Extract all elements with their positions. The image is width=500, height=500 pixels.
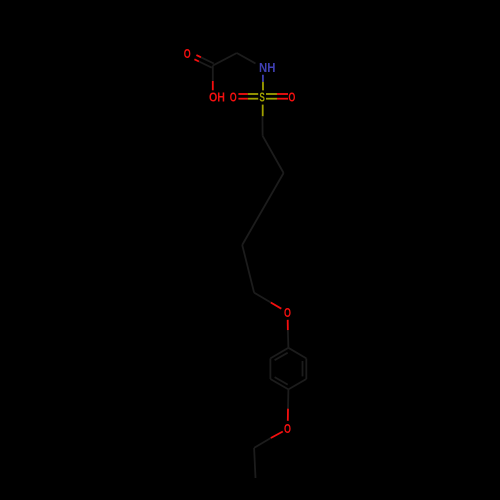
svg-text:O: O bbox=[284, 305, 291, 320]
bond N-S (blue half) bbox=[262, 75, 264, 82]
bond acidC-alphaC (gray) bbox=[213, 53, 237, 66]
ring edge LL-UL (gray) bbox=[269, 358, 271, 379]
ring edge UL-T (gray) bbox=[270, 348, 288, 359]
svg-text:O: O bbox=[284, 421, 291, 436]
bond S=O right line b (red half) bbox=[277, 98, 288, 100]
bond C5-C6 ethyl tail (gray) bbox=[254, 448, 255, 478]
bond C1-C2 (gray) bbox=[263, 136, 284, 173]
bond C3-C4 (gray) bbox=[242, 245, 254, 293]
svg-text:O: O bbox=[184, 46, 191, 61]
ring inner aromatic line bottom-left (gray) bbox=[275, 377, 288, 385]
svg-text:S: S bbox=[259, 89, 265, 104]
bond S=O left line b (olive half) bbox=[248, 98, 259, 100]
ring inner aromatic line right (gray) bbox=[302, 361, 304, 376]
bond C=O carbonyl line b (gray half) bbox=[199, 62, 212, 68]
bond O2-C5 (red half) bbox=[271, 432, 283, 439]
bond C2-C3 long straight (gray) bbox=[242, 173, 283, 245]
ring inner aromatic line top-left (gray) bbox=[275, 353, 288, 361]
bond C-OH (gray half) bbox=[212, 66, 214, 81]
bond S=O right line a (red half) bbox=[277, 93, 288, 95]
bond S=O right line b (olive half) bbox=[266, 98, 277, 100]
svg-text:O: O bbox=[230, 89, 237, 104]
bond S=O right line a (olive half) bbox=[266, 93, 277, 95]
ring edge T-UR (gray) bbox=[288, 348, 306, 359]
bond O2-C5 (gray half) bbox=[254, 438, 271, 448]
bond S=O left line b (red half) bbox=[238, 98, 247, 100]
bond S-C1 (olive half) bbox=[262, 105, 264, 117]
bond N-S (olive half) bbox=[262, 82, 264, 91]
ring edge LR-B (gray) bbox=[288, 379, 306, 389]
bond alphaC-N (gray, trimmed at NH text) bbox=[237, 53, 256, 64]
bond C4-O1 (gray half) bbox=[254, 293, 271, 303]
bond C-OH (red half) bbox=[212, 81, 214, 90]
ring edge UR-LR (gray) bbox=[305, 358, 307, 379]
svg-text:O: O bbox=[288, 89, 295, 104]
svg-text:NH: NH bbox=[259, 60, 275, 75]
bond S-C1 (gray half) bbox=[261, 116, 263, 136]
bond C4-O1 (red half) bbox=[271, 303, 282, 309]
bond O1-ring top (red half) bbox=[287, 320, 289, 330]
bond S=O left line a (olive half) bbox=[248, 93, 259, 95]
bond ring bottom-O2 (gray half) bbox=[287, 389, 289, 408]
ring edge B-LL (gray) bbox=[270, 379, 288, 389]
bond S=O left line a (red half) bbox=[238, 93, 247, 95]
bond O1-ring top (gray half) bbox=[287, 330, 290, 348]
bond C=O carbonyl line a (red half) bbox=[196, 55, 201, 57]
bond C=O carbonyl line b (red half) bbox=[194, 59, 199, 61]
bond C=O carbonyl line a (gray half) bbox=[201, 57, 214, 63]
svg-text:OH: OH bbox=[209, 89, 225, 104]
bond ring bottom-O2 (red half) bbox=[287, 409, 289, 421]
